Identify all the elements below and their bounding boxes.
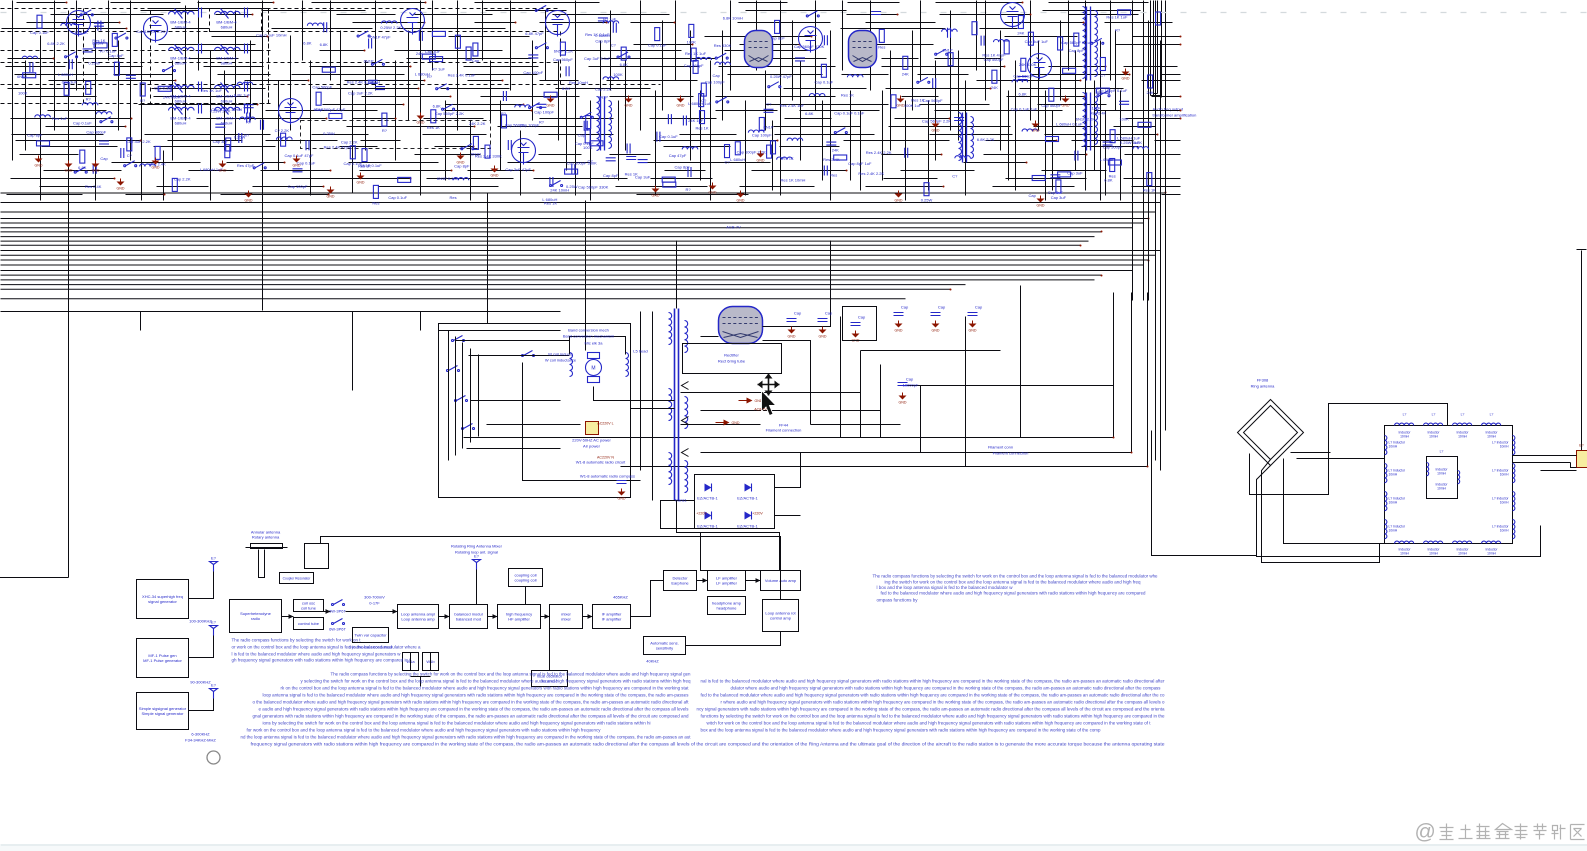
svg-text:Cap: Cap [825,311,833,316]
svg-text:Res 2.4K 2.2K: Res 2.4K 2.2K [858,171,884,176]
svg-text:Cap 0.1uF 1uF: Cap 0.1uF 1uF [1011,106,1038,111]
svg-text:GND: GND [899,401,907,405]
svg-text:Res 1K 1uF: Res 1K 1uF [685,51,707,56]
svg-text:signal generator: signal generator [148,599,177,604]
svg-text:The radio compass functions by: The radio compass functions by selecting… [232,638,362,643]
svg-text:10mH: 10mH [1487,435,1496,439]
svg-text:Cap 8pF: Cap 8pF [1069,48,1085,53]
svg-text:10mH: 10mH [1500,529,1509,533]
svg-text:Cap 8pF: Cap 8pF [603,173,619,178]
svg-text:control tube: control tube [298,621,320,626]
svg-text:0-17F: 0-17F [369,601,380,606]
svg-text:+220V: +220V [752,512,763,516]
svg-text:E?: E? [211,683,217,688]
svg-text:GND: GND [618,497,626,501]
svg-text:Res 1uF: Res 1uF [52,116,68,121]
svg-text:Cap 100pF: Cap 100pF [534,110,554,115]
svg-text:Band conversion mech: Band conversion mech [568,328,609,333]
svg-text:Res 10mH: Res 10mH [569,80,588,85]
svg-text:10mH: 10mH [1389,501,1398,505]
svg-text:L?: L? [1490,413,1494,417]
svg-text:GND: GND [357,181,365,185]
svg-text:680uH: 680uH [221,121,233,126]
svg-text:Cap 560pF: Cap 560pF [505,122,525,127]
svg-text:Cap 3uF: Cap 3uF [1051,195,1067,200]
svg-text:+220V: +220V [696,512,707,516]
svg-text:0.25W: 0.25W [88,60,100,65]
svg-text:Cap 560pF: Cap 560pF [684,63,704,68]
svg-text:10000pF: 10000pF [903,383,919,388]
svg-text:Cap 8pF: Cap 8pF [675,164,691,169]
svg-text:EZ/ACTB-1: EZ/ACTB-1 [737,496,758,501]
svg-text:100K: 100K [18,90,28,95]
svg-text:Cap 560pF: Cap 560pF [553,57,573,62]
svg-text:Cap 100pF 330K: Cap 100pF 330K [567,161,598,166]
svg-text:Cap 0.1uF: Cap 0.1uF [388,195,407,200]
svg-text:l box and the loop antenna sig: l box and the loop antenna signal is fed… [877,585,1014,590]
svg-text:Res 1K 10mH: Res 1K 10mH [781,177,806,182]
svg-text:C? 2.2K: C? 2.2K [275,128,290,133]
svg-text:R? 1uF: R? 1uF [603,17,617,22]
svg-text:Cap 560pF 330K: Cap 560pF 330K [578,184,609,189]
svg-text:GND: GND [625,104,633,108]
svg-text:100K: 100K [1119,116,1129,121]
svg-text:6N1P: 6N1P [763,124,773,129]
svg-text:Rect 6ring tube: Rect 6ring tube [718,359,746,364]
svg-text:Cap 3uF: Cap 3uF [1048,190,1064,195]
svg-text:100K 1uF: 100K 1uF [904,103,922,108]
svg-text:R?: R? [140,98,146,103]
svg-text:functions by selecting the swi: functions by selecting the switch for wo… [701,714,1166,719]
svg-text:Cap 8pF: Cap 8pF [595,38,611,43]
svg-text:l is fed to the balanced modul: l is fed to the balanced modulator where… [232,652,402,657]
svg-text:E?: E? [211,620,217,625]
svg-text:6N1P 47pF: 6N1P 47pF [370,34,391,39]
svg-text:Air power: Air power [583,444,601,449]
svg-text:L5 bead: L5 bead [633,349,647,354]
svg-text:ompass functions by: ompass functions by [877,598,919,603]
svg-text:R? 0.1uF: R? 0.1uF [100,49,117,54]
svg-text:6.8K: 6.8K [620,62,629,67]
svg-text:Cap 560pF 0.1uF: Cap 560pF 0.1uF [1061,40,1093,45]
svg-text:gnal generators with radio sta: gnal generators with radio stations with… [253,714,690,719]
svg-text:GND: GND [732,421,740,425]
svg-text:10mH: 10mH [1389,529,1398,533]
svg-text:24K: 24K [1017,31,1024,36]
svg-text:L?: L? [1432,413,1436,417]
svg-text:Cap 0.1uF: Cap 0.1uF [73,120,92,125]
svg-text:6N1P 0.1uF: 6N1P 0.1uF [360,163,382,168]
svg-text:IF amplifier: IF amplifier [602,617,622,622]
svg-text:GND: GND [932,329,940,333]
svg-text:or work on the control box and: or work on the control box and the loop … [232,645,422,650]
svg-text:Filament connection: Filament connection [766,428,802,433]
svg-text:Cap: Cap [578,132,586,137]
svg-text:GND: GND [327,195,335,199]
svg-text:GND: GND [35,164,43,168]
svg-text:coupling coil: coupling coil [514,578,536,583]
svg-text:Cap 560pF: Cap 560pF [312,85,332,90]
svg-text:Res 330K: Res 330K [714,43,732,48]
svg-text:frequency signal generators wi: frequency signal generators with radio s… [251,742,1166,747]
svg-text:Res 2.4K 1uF: Res 2.4K 1uF [780,103,805,108]
svg-text:e audio and high frequency sig: e audio and high frequency signal genera… [259,707,689,712]
svg-text:Cap: Cap [1029,193,1037,198]
svg-text:EZ/ACTB-1: EZ/ACTB-1 [697,496,718,501]
svg-text:L 680uH: L 680uH [58,72,73,77]
svg-text:Cap: Cap [713,73,721,78]
svg-text:24K: 24K [832,148,839,153]
svg-text:6N1P 2.2K: 6N1P 2.2K [554,48,574,53]
svg-text:Cap 3uF 1uF: Cap 3uF 1uF [1025,39,1049,44]
svg-text:Res 1K: Res 1K [92,38,105,43]
svg-text:Cap 8pF 1uF: Cap 8pF 1uF [848,161,872,166]
svg-text:Res 2.4K: Res 2.4K [1090,111,1107,116]
svg-text:for work on the control box an: for work on the control box and the loop… [247,728,602,733]
svg-text:EZ/ACTB-1: EZ/ACTB-1 [737,524,758,529]
svg-text:W1-8 automatic radio compass: W1-8 automatic radio compass [580,474,635,479]
svg-text:24K: 24K [991,85,998,90]
svg-text:Res: Res [878,44,885,49]
svg-text:40KHZ: 40KHZ [646,659,659,664]
svg-text:GND: GND [547,104,555,108]
svg-text:GND: GND [1122,77,1130,81]
svg-text:680uH: 680uH [221,61,233,66]
svg-text:GND: GND [293,164,301,168]
svg-text:Cap 100pF: Cap 100pF [288,184,308,189]
svg-text:Cap 2.2K: Cap 2.2K [174,177,191,182]
svg-text:E?: E? [211,556,217,561]
svg-text:GND: GND [969,329,977,333]
svg-text:ACB-7V: ACB-7V [726,225,741,230]
svg-text:Res 2.4K 0.1uF: Res 2.4K 0.1uF [448,73,476,78]
svg-text:Filament conn: Filament conn [988,445,1013,450]
svg-text:GND: GND [757,159,765,163]
svg-text:6-300KHZ: 6-300KHZ [191,732,210,737]
svg-text:Cap 560pF 2.2K: Cap 560pF 2.2K [435,111,464,116]
svg-text:GND: GND [897,104,905,108]
svg-text:Cap: Cap [975,305,983,310]
svg-text:Cap 560pF: Cap 560pF [86,129,106,134]
svg-text:L?: L? [1403,413,1407,417]
svg-text:GND: GND [457,161,465,165]
svg-text:Cap 8pF: Cap 8pF [108,53,124,58]
svg-text:witch for work on the control: witch for work on the control box and th… [707,721,1152,726]
svg-text:headphone: headphone [716,606,737,611]
svg-text:Cap 0.1uF 47pF: Cap 0.1uF 47pF [285,153,314,158]
svg-text:R?: R? [244,133,250,138]
svg-text:Ring antenna: Ring antenna [1251,384,1276,389]
svg-text:Cap 0.1uF: Cap 0.1uF [659,134,678,139]
svg-text:GND: GND [819,335,827,339]
svg-text:10mH: 10mH [1429,552,1438,556]
svg-text:GND: GND [737,199,745,203]
svg-text:GND: GND [1037,204,1045,208]
svg-text:6W-3P6T: 6W-3P6T [329,627,346,632]
svg-text:Cap 100pF 0.1uF: Cap 100pF 0.1uF [1096,88,1128,93]
svg-text:Cap 0.1uF: Cap 0.1uF [648,43,667,48]
svg-text:10mH: 10mH [1500,501,1509,505]
svg-text:Cap: Cap [906,377,914,382]
svg-text:0.25W 2.2K: 0.25W 2.2K [380,25,401,30]
svg-text:680uH: 680uH [175,121,187,126]
svg-text:GND: GND [677,104,685,108]
svg-text:Loop antenna amp: Loop antenna amp [401,617,435,622]
svg-text:R? 1uF: R? 1uF [432,66,446,71]
svg-text:Rectifier: Rectifier [724,353,739,358]
svg-text:L?: L? [1440,450,1444,454]
svg-text:GND: GND [152,166,160,170]
svg-text:100K: 100K [687,39,697,44]
svg-text:Rotary antenna: Rotary antenna [252,535,280,540]
svg-text:FF308: FF308 [1257,378,1269,383]
svg-text:Cap 3uF 47pF: Cap 3uF 47pF [505,167,531,172]
svg-text:Res: Res [450,195,457,200]
svg-text:6N1P 0.1uF: 6N1P 0.1uF [437,176,459,181]
svg-text:Cap 3uF 2.2K: Cap 3uF 2.2K [126,139,151,144]
svg-text:Res 1K: Res 1K [427,125,440,130]
svg-text:Rotating loop ant. signal: Rotating loop ant. signal [455,550,498,555]
svg-text:10mH: 10mH [1400,435,1409,439]
svg-text:EZ/ACTB-1: EZ/ACTB-1 [697,524,718,529]
svg-text:6.8K: 6.8K [78,165,87,170]
svg-text:6.8K: 6.8K [303,41,312,46]
svg-text:6.8K 2.2K: 6.8K 2.2K [977,137,995,142]
svg-text:R?: R? [685,187,691,192]
svg-text:E?: E? [1579,444,1583,448]
svg-text:GND: GND [219,169,227,173]
svg-text:Rotating Ring Antenna Mixer: Rotating Ring Antenna Mixer [451,544,503,549]
svg-text:LF amplifier: LF amplifier [716,581,738,586]
svg-text:GND: GND [895,329,903,333]
svg-text:AC220V L: AC220V L [597,422,613,426]
svg-text:10mH: 10mH [1458,435,1467,439]
svg-text:Cap 0.1uF 10mH: Cap 0.1uF 10mH [256,32,287,37]
svg-text:0.25W 1uF: 0.25W 1uF [1120,140,1140,145]
svg-text:Cap 560pF: Cap 560pF [984,57,1004,62]
svg-text:680uH: 680uH [221,25,233,30]
svg-text:C?: C? [952,173,958,178]
svg-text:Res 1K: Res 1K [841,92,854,97]
svg-text:6W-3P6T: 6W-3P6T [329,609,346,614]
svg-text:fed to the balanced modulator: fed to the balanced modulator where audi… [881,591,1147,596]
svg-text:L 680uH: L 680uH [1100,157,1115,162]
svg-text:M: M [591,366,595,372]
svg-text:Cap 0.1uF: Cap 0.1uF [30,30,49,35]
svg-text:rk on the control box and the: rk on the control box and the loop anten… [281,686,690,691]
svg-text:W1-8 automatic radio circuit: W1-8 automatic radio circuit [576,460,626,465]
svg-text:Cap: Cap [938,305,946,310]
svg-text:GND: GND [65,169,73,173]
svg-text:6.8K: 6.8K [562,86,571,91]
svg-text:Cap 8pF: Cap 8pF [27,132,43,137]
svg-text:GND: GND [1062,104,1070,108]
svg-text:6.8K: 6.8K [433,104,442,109]
svg-text:Cap 2.2K: Cap 2.2K [595,86,612,91]
svg-text:6.8K: 6.8K [1018,92,1027,97]
svg-text:24K 1uF: 24K 1uF [688,118,704,123]
svg-text:24K 10mH: 24K 10mH [550,188,569,193]
svg-text:R?: R? [382,128,388,133]
svg-text:Res 1K 1uF: Res 1K 1uF [201,88,223,93]
svg-text:GND: GND [652,194,660,198]
svg-text:AC8-7V: AC8-7V [754,408,767,412]
svg-text:Cap 3uF: Cap 3uF [213,139,229,144]
svg-text:Res 2.4K 2.2K: Res 2.4K 2.2K [866,150,892,155]
svg-text:R?: R? [86,96,92,101]
svg-text:Res 1K: Res 1K [1143,188,1156,193]
svg-text:F34-34KHZ-MHZ: F34-34KHZ-MHZ [185,738,216,743]
svg-text:Cap 100pF: Cap 100pF [752,133,772,138]
svg-text:Res 1K: Res 1K [544,201,557,206]
svg-text:Res 1K 47pF: Res 1K 47pF [982,53,1006,58]
svg-text:GND: GND [1032,129,1040,133]
svg-text:Cap 560pF 47pF: Cap 560pF 47pF [315,107,346,112]
svg-text:6.8K 10mH: 6.8K 10mH [723,15,743,20]
svg-text:GND: GND [788,335,796,339]
svg-text:Res 1K: Res 1K [911,97,924,102]
svg-text:FF44: FF44 [779,423,789,428]
svg-text:0.25W: 0.25W [323,131,335,136]
svg-text:6.8K 2.2K: 6.8K 2.2K [47,41,65,46]
svg-text:0.25W: 0.25W [921,198,933,203]
svg-text:Cap: Cap [100,156,108,161]
svg-text:Simple signal generator: Simple signal generator [141,711,184,716]
svg-text:10mH: 10mH [1437,487,1446,491]
svg-text:Cap 0.1uF 0.1uF: Cap 0.1uF 0.1uF [834,111,865,116]
svg-text:Cap 3uF 2.2K: Cap 3uF 2.2K [348,90,373,95]
svg-text:R?: R? [539,119,545,124]
svg-text:6.8K: 6.8K [320,42,329,47]
svg-text:10mH: 10mH [1458,552,1467,556]
svg-text:Mic elk 3a: Mic elk 3a [584,341,603,346]
svg-text:The radio compass functions by: The radio compass functions by selecting… [331,672,692,677]
svg-text:10mH: 10mH [1437,472,1446,476]
svg-text:GND: GND [117,187,125,191]
svg-text:6N1P: 6N1P [364,59,374,64]
svg-text:24K 2.2K: 24K 2.2K [469,121,486,126]
svg-text:GND: GND [932,129,940,133]
svg-text:r where audio and high frequen: r where audio and high frequency signal … [721,700,1166,705]
svg-text:Res 1K: Res 1K [781,156,794,161]
svg-text:680uH: 680uH [221,99,233,104]
svg-text:6.8K 47pF: 6.8K 47pF [525,31,544,36]
svg-text:gh frequency signal generators: gh frequency signal generators with radi… [232,658,412,663]
svg-text:nal is fed to the balanced mod: nal is fed to the balanced modulator whe… [701,679,1166,684]
svg-text:C?: C? [127,153,133,158]
svg-text:mixer: mixer [561,617,571,622]
svg-text:loop antenna signal is fed to: loop antenna signal is fed to the balanc… [263,693,689,698]
svg-text:balanced mod: balanced mod [456,617,481,622]
svg-text:L 680uH 0.1uF: L 680uH 0.1uF [1056,121,1083,126]
svg-text:@: @ [1415,821,1436,844]
svg-text:Cap: Cap [472,58,480,63]
svg-text:o the balanced modulator where: o the balanced modulator where audio and… [253,700,690,705]
svg-text:AC220V N: AC220V N [597,456,614,460]
svg-text:Coupler Resonator: Coupler Resonator [283,577,312,581]
svg-text:10mH: 10mH [1429,435,1438,439]
svg-text:10mH: 10mH [1500,473,1509,477]
svg-text:dulator where audio and high f: dulator where audio and high frequency s… [731,686,1161,691]
svg-text:MF-1 Pulse generator: MF-1 Pulse generator [143,658,182,663]
svg-text:24K: 24K [902,71,909,76]
svg-text:10mH: 10mH [1400,552,1409,556]
svg-text:Res 2.4K 330K: Res 2.4K 330K [475,153,502,158]
svg-text:Earphone: Earphone [671,581,689,586]
svg-text:Cap 0.1uF: Cap 0.1uF [815,79,834,84]
svg-text:Cap 100pF: Cap 100pF [523,70,543,75]
svg-text:300-700mV: 300-700mV [364,595,385,600]
svg-text:nd the loop antenna signal is: nd the loop antenna signal is fed to the… [241,735,692,740]
svg-text:6N1P: 6N1P [942,48,952,53]
svg-text:10mH: 10mH [1389,473,1398,477]
svg-text:Res 2.4K: Res 2.4K [823,157,840,162]
svg-text:24K: 24K [1147,90,1154,95]
svg-text:6.8K: 6.8K [805,111,814,116]
svg-text:Res 2.4K 47pF: Res 2.4K 47pF [324,145,351,150]
svg-text:transformer amplification: transformer amplification [1153,113,1197,118]
svg-text:Filament connection: Filament connection [993,451,1029,456]
svg-text:Annular antenna: Annular antenna [251,530,281,535]
svg-text:y selecting the switch for wor: y selecting the switch for work on the c… [301,679,692,684]
svg-text:GND: GND [92,169,100,173]
svg-text:ions by selecting the switch f: ions by selecting the switch for work on… [263,721,651,726]
svg-text:90-300KHZ: 90-300KHZ [190,680,211,685]
svg-text:Band conversion mechanism: Band conversion mechanism [563,334,615,339]
svg-text:Cap 560pF: Cap 560pF [923,98,943,103]
svg-text:Res: Res [830,173,837,178]
svg-text:Res 2.4K 0.1uF: Res 2.4K 0.1uF [347,80,375,85]
svg-text:ncy signal generators with rad: ncy signal generators with radio station… [697,707,1166,712]
svg-text:100K: 100K [613,72,623,77]
svg-text:680uH: 680uH [175,61,187,66]
svg-text:220V-50HZ AC power: 220V-50HZ AC power [572,438,611,443]
svg-text:0.25W 47pF: 0.25W 47pF [770,74,792,79]
svg-text:Cap: Cap [794,311,802,316]
svg-text:GND: GND [417,121,425,125]
svg-text:R?: R? [1115,27,1121,32]
svg-text:Cap 3uF: Cap 3uF [425,49,441,54]
svg-text:Res 1K 0.1uF: Res 1K 0.1uF [585,32,610,37]
svg-text:Res 2.4K: Res 2.4K [85,184,102,189]
svg-text:Trans1: Trans1 [674,498,687,503]
svg-text:100-300KHZ: 100-300KHZ [189,619,212,624]
svg-text:HF amplifier: HF amplifier [508,617,530,622]
svg-text:coil tune: coil tune [301,606,317,611]
svg-text:L 680uH: L 680uH [730,157,745,162]
svg-text:Cap 560pF: Cap 560pF [1041,103,1061,108]
svg-text:GND: GND [245,199,253,203]
svg-text:10mH: 10mH [1389,445,1398,449]
svg-text:680uH: 680uH [175,99,187,104]
svg-text:C?: C? [1100,73,1106,78]
svg-text:Res 1K 1uF: Res 1K 1uF [1106,15,1128,20]
svg-text:control amp: control amp [770,616,792,621]
svg-text:sensitivity: sensitivity [656,646,673,651]
svg-text:fed to the balanced modulator: fed to the balanced modulator where audi… [701,693,1166,698]
svg-text:10mH: 10mH [1500,445,1509,449]
svg-text:The radio compass functions by: The radio compass functions by selecting… [873,574,1159,579]
svg-text:L?: L? [1461,413,1465,417]
svg-text:10mH: 10mH [1487,552,1496,556]
svg-text:Cap 47pF: Cap 47pF [669,153,687,158]
svg-text:Cap 100pF: Cap 100pF [705,80,725,85]
svg-text:W coil inductance: W coil inductance [545,358,577,363]
svg-text:R?: R? [501,111,507,116]
svg-text:W coil inducts: W coil inducts [548,352,573,357]
svg-text:ing the switch for work on the: ing the switch for work on the control b… [885,580,1142,585]
svg-text:C?: C? [724,160,730,165]
